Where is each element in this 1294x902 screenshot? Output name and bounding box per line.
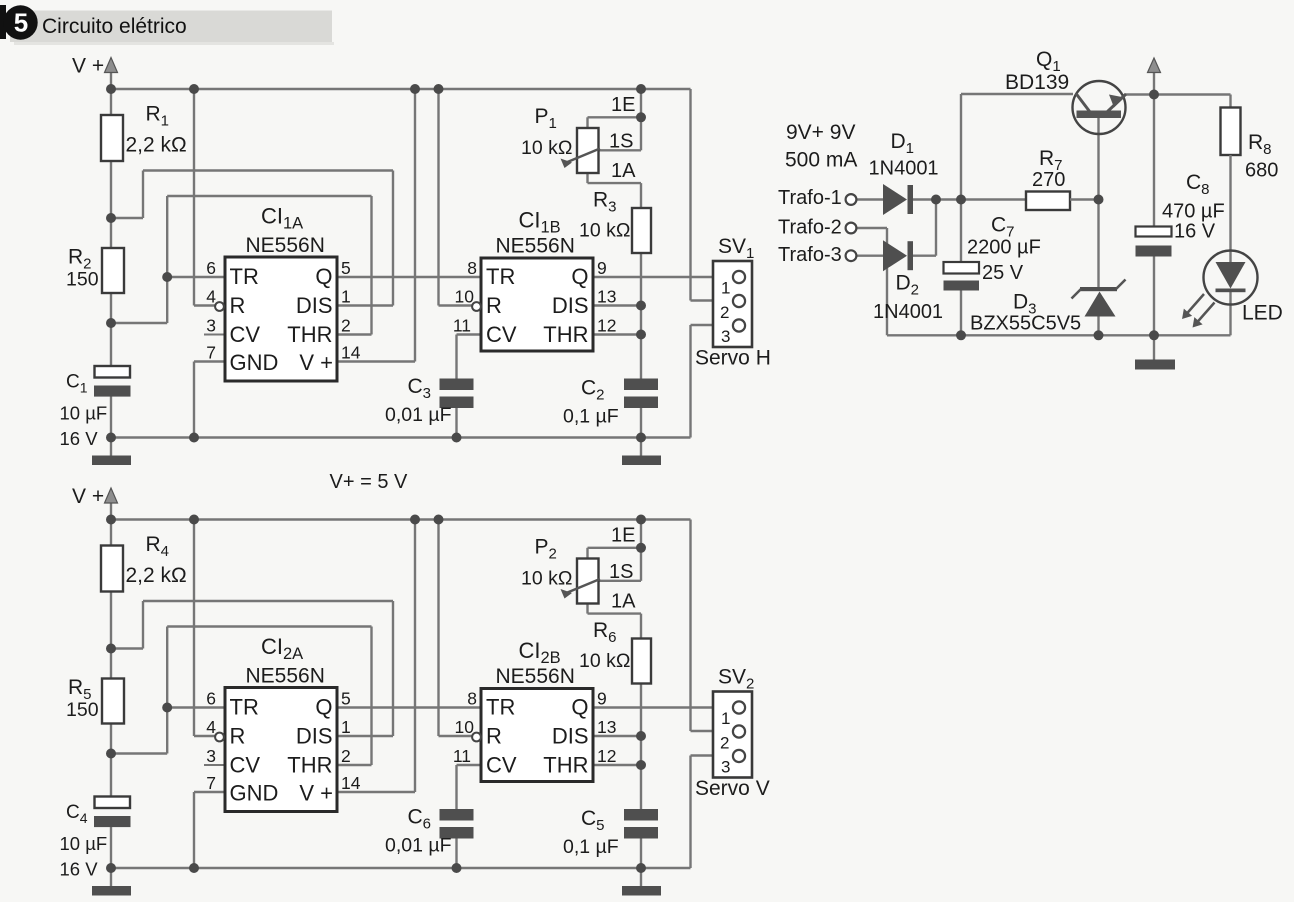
svg-text:NE556N: NE556N [496, 235, 575, 258]
svg-text:1A: 1A [611, 160, 636, 182]
svg-text:THR: THR [543, 322, 588, 347]
svg-text:Q: Q [315, 695, 332, 720]
svg-text:8: 8 [467, 258, 477, 278]
svg-text:6: 6 [206, 258, 216, 278]
svg-text:5: 5 [341, 689, 351, 709]
svg-text:10 µF: 10 µF [60, 833, 108, 854]
svg-text:2,2 kΩ: 2,2 kΩ [126, 564, 187, 587]
svg-text:12: 12 [597, 316, 616, 336]
svg-text:3: 3 [206, 746, 216, 766]
svg-text:10 kΩ: 10 kΩ [521, 568, 572, 590]
svg-text:Q: Q [571, 264, 588, 289]
svg-text:10 kΩ: 10 kΩ [579, 650, 630, 672]
svg-text:7: 7 [206, 773, 216, 793]
svg-text:2: 2 [341, 316, 351, 336]
svg-text:2: 2 [720, 734, 729, 753]
svg-text:1E: 1E [611, 94, 635, 116]
svg-text:16 V: 16 V [60, 428, 99, 449]
svg-text:11: 11 [453, 746, 471, 766]
svg-text:Circuito elétrico: Circuito elétrico [42, 15, 187, 38]
svg-text:270: 270 [1032, 169, 1065, 191]
svg-text:LED: LED [1242, 302, 1283, 325]
svg-text:13: 13 [597, 287, 616, 307]
svg-text:2,2 kΩ: 2,2 kΩ [126, 134, 187, 157]
svg-text:11: 11 [453, 316, 471, 336]
svg-text:CV: CV [486, 753, 517, 778]
svg-text:R: R [230, 293, 246, 318]
svg-text:Trafo-1: Trafo-1 [778, 187, 842, 209]
svg-text:10 µF: 10 µF [60, 403, 108, 424]
svg-text:CV: CV [486, 322, 517, 347]
svg-text:THR: THR [287, 753, 332, 778]
svg-text:CV: CV [230, 753, 261, 778]
svg-text:V +: V + [72, 55, 104, 78]
svg-text:NE556N: NE556N [496, 665, 575, 688]
svg-text:8: 8 [467, 689, 477, 709]
svg-text:5: 5 [341, 258, 351, 278]
svg-text:680: 680 [1245, 160, 1278, 182]
svg-text:V +: V + [299, 781, 333, 806]
svg-text:4: 4 [206, 717, 216, 737]
svg-text:150: 150 [66, 699, 99, 721]
svg-text:BZX55C5V5: BZX55C5V5 [970, 313, 1081, 335]
svg-text:2: 2 [341, 746, 351, 766]
svg-text:Servo H: Servo H [695, 347, 771, 370]
svg-text:1A: 1A [611, 591, 636, 613]
svg-text:1: 1 [721, 709, 730, 728]
svg-text:7: 7 [206, 343, 216, 363]
svg-text:THR: THR [543, 753, 588, 778]
svg-text:NE556N: NE556N [246, 665, 325, 688]
svg-text:0,01 µF: 0,01 µF [385, 835, 452, 857]
svg-text:1S: 1S [609, 131, 633, 153]
svg-text:10: 10 [455, 717, 475, 737]
svg-text:0,01 µF: 0,01 µF [385, 404, 452, 426]
svg-text:TR: TR [230, 695, 259, 720]
svg-text:12: 12 [597, 746, 616, 766]
svg-text:2: 2 [720, 303, 729, 322]
svg-text:3: 3 [721, 758, 730, 777]
svg-text:Q: Q [571, 695, 588, 720]
svg-text:9V+ 9V: 9V+ 9V [786, 121, 855, 144]
svg-text:9: 9 [597, 689, 607, 709]
svg-text:1: 1 [341, 287, 351, 307]
svg-text:13: 13 [597, 717, 616, 737]
svg-text:10: 10 [455, 287, 475, 307]
svg-text:500 mA: 500 mA [785, 149, 857, 172]
svg-text:V +: V + [299, 350, 333, 375]
svg-text:470 µF: 470 µF [1162, 201, 1225, 223]
svg-text:1S: 1S [609, 561, 633, 583]
svg-text:16 V: 16 V [1174, 221, 1216, 243]
svg-text:10 kΩ: 10 kΩ [579, 220, 630, 242]
svg-text:R: R [486, 724, 502, 749]
svg-text:150: 150 [66, 269, 99, 291]
svg-text:6: 6 [206, 689, 216, 709]
svg-text:14: 14 [341, 343, 361, 363]
svg-text:DIS: DIS [296, 724, 333, 749]
svg-text:DIS: DIS [296, 293, 333, 318]
svg-text:TR: TR [230, 264, 259, 289]
svg-text:1E: 1E [611, 525, 635, 547]
svg-text:2200 µF: 2200 µF [967, 237, 1041, 259]
svg-text:1: 1 [721, 279, 730, 298]
svg-text:4: 4 [206, 287, 216, 307]
svg-text:Trafo-3: Trafo-3 [778, 244, 842, 266]
svg-text:R: R [486, 293, 502, 318]
svg-text:5: 5 [14, 8, 28, 38]
svg-text:DIS: DIS [552, 293, 589, 318]
svg-text:V +: V + [72, 485, 104, 508]
svg-text:DIS: DIS [552, 724, 589, 749]
svg-text:Trafo-2: Trafo-2 [778, 217, 842, 239]
svg-text:3: 3 [721, 327, 730, 346]
svg-text:NE556N: NE556N [246, 234, 325, 257]
svg-text:1: 1 [341, 717, 351, 737]
svg-text:TR: TR [486, 695, 515, 720]
svg-text:1N4001: 1N4001 [869, 158, 939, 180]
svg-text:9: 9 [597, 258, 607, 278]
svg-text:3: 3 [206, 316, 216, 336]
svg-text:Q: Q [315, 264, 332, 289]
svg-text:V+ = 5 V: V+ = 5 V [330, 471, 408, 493]
svg-text:CV: CV [230, 322, 261, 347]
svg-text:1N4001: 1N4001 [873, 301, 943, 323]
svg-text:10 kΩ: 10 kΩ [521, 137, 572, 159]
svg-text:0,1 µF: 0,1 µF [563, 406, 619, 428]
svg-text:BD139: BD139 [1005, 71, 1069, 94]
svg-text:R: R [230, 724, 246, 749]
svg-text:THR: THR [287, 322, 332, 347]
svg-text:16 V: 16 V [60, 859, 99, 880]
svg-text:GND: GND [230, 350, 279, 375]
svg-text:GND: GND [230, 781, 279, 806]
svg-text:Servo V: Servo V [695, 777, 770, 800]
svg-text:TR: TR [486, 264, 515, 289]
svg-text:14: 14 [341, 773, 361, 793]
svg-text:0,1 µF: 0,1 µF [563, 836, 619, 858]
svg-text:25 V: 25 V [982, 262, 1024, 284]
